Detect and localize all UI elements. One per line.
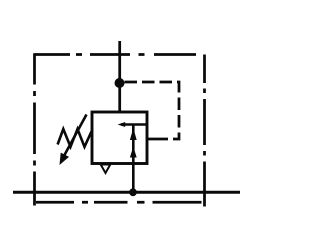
wire: inlet port line (top) xyxy=(118,41,121,112)
drain port triangle (open, points down) xyxy=(101,165,111,174)
arrowhead on internal flow path (points left) xyxy=(118,122,126,127)
spring (adjustable) xyxy=(58,129,92,147)
pilot line solid stub at valve right port xyxy=(147,138,165,141)
enclosure left border (dash-dot) xyxy=(33,53,36,205)
junction dot: top node xyxy=(115,78,125,88)
enclosure right border (dash-dot) xyxy=(203,55,206,207)
junction dot: bottom node xyxy=(129,188,137,196)
enclosure top border (dash-dot) xyxy=(35,53,197,56)
arrowhead 1 on internal vertical path (points up) xyxy=(130,128,137,140)
internal flow path: vertical segment xyxy=(132,125,135,164)
arrowhead 2 on internal vertical path (points up) xyxy=(130,147,137,158)
valve body V1 (envelope) xyxy=(92,112,147,164)
enclosure bottom border (dash-dot) xyxy=(36,201,202,204)
pilot line (dashed) xyxy=(125,82,180,139)
adjustment arrow shaft xyxy=(64,115,86,156)
wire: tank bus line (bottom) xyxy=(13,191,240,194)
adjustment arrow head (points down-left) xyxy=(60,153,70,165)
wire: valve outlet line to bus xyxy=(132,160,135,192)
internal flow path: horizontal segment xyxy=(121,123,147,126)
